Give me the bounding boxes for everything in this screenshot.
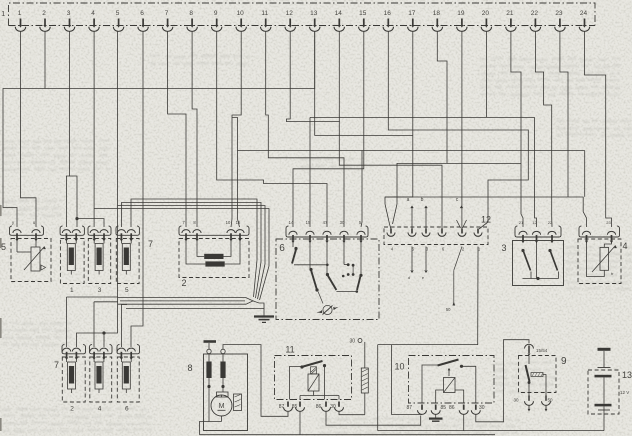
svg-text:10: 10 <box>394 362 404 372</box>
svg-text:85: 85 <box>441 405 447 411</box>
svg-text:8: 8 <box>187 363 192 373</box>
svg-text:30: 30 <box>330 404 336 410</box>
svg-text:12: 12 <box>481 215 491 225</box>
svg-text:19: 19 <box>457 10 465 17</box>
svg-text:30: 30 <box>340 220 345 225</box>
svg-text:2: 2 <box>70 406 74 413</box>
svg-text:13: 13 <box>310 10 318 17</box>
svg-text:85: 85 <box>292 404 298 410</box>
svg-text:b: b <box>421 197 424 203</box>
svg-text:86: 86 <box>449 405 455 411</box>
svg-text:15/54: 15/54 <box>536 348 548 353</box>
svg-text:3: 3 <box>501 243 506 253</box>
svg-text:21: 21 <box>506 10 514 17</box>
svg-text:5: 5 <box>125 287 129 294</box>
svg-text:9: 9 <box>561 356 567 367</box>
svg-text:7: 7 <box>148 239 153 249</box>
svg-text:86: 86 <box>316 404 322 410</box>
svg-text:22: 22 <box>531 10 539 17</box>
svg-text:87: 87 <box>279 404 285 410</box>
svg-text:23: 23 <box>555 10 563 17</box>
svg-text:8: 8 <box>189 10 193 17</box>
svg-text:21: 21 <box>519 220 524 225</box>
svg-text:14: 14 <box>335 10 343 17</box>
svg-text:2: 2 <box>181 278 186 288</box>
svg-text:3: 3 <box>98 287 102 294</box>
svg-text:14: 14 <box>289 220 294 225</box>
svg-text:1: 1 <box>1 11 5 18</box>
svg-text:30: 30 <box>479 405 485 411</box>
svg-text:13: 13 <box>622 370 632 380</box>
svg-text:18: 18 <box>433 10 441 17</box>
svg-text:4: 4 <box>98 406 102 413</box>
svg-text:d: d <box>408 275 410 280</box>
svg-text:15: 15 <box>306 220 311 225</box>
svg-text:5: 5 <box>116 10 120 17</box>
svg-text:11: 11 <box>261 10 268 17</box>
svg-text:a: a <box>407 197 410 203</box>
svg-text:6: 6 <box>125 406 129 413</box>
svg-text:47: 47 <box>323 220 328 225</box>
svg-text:16: 16 <box>384 10 392 17</box>
svg-text:24: 24 <box>580 10 588 17</box>
svg-text:15: 15 <box>359 10 367 17</box>
svg-text:M: M <box>219 403 225 410</box>
svg-text:11: 11 <box>285 345 294 355</box>
svg-text:12: 12 <box>532 220 537 225</box>
svg-text:4: 4 <box>623 241 628 251</box>
svg-text:7: 7 <box>54 360 59 370</box>
svg-text:15: 15 <box>236 220 241 225</box>
svg-text:1: 1 <box>70 287 74 294</box>
svg-text:1: 1 <box>18 10 22 17</box>
svg-text:23: 23 <box>606 220 611 225</box>
svg-text:22: 22 <box>548 220 553 225</box>
svg-text:12: 12 <box>286 10 294 17</box>
svg-text:2: 2 <box>42 10 46 17</box>
svg-text:3: 3 <box>67 10 71 17</box>
svg-text:17: 17 <box>408 10 416 17</box>
svg-text:4: 4 <box>91 10 95 17</box>
svg-text:87: 87 <box>406 405 412 411</box>
svg-text:50: 50 <box>547 398 553 403</box>
svg-text:9: 9 <box>214 10 218 17</box>
svg-text:6: 6 <box>279 243 285 254</box>
svg-text:12 V: 12 V <box>620 390 629 395</box>
svg-text:10: 10 <box>237 10 245 17</box>
svg-text:5: 5 <box>1 242 6 252</box>
svg-text:7: 7 <box>165 10 169 17</box>
svg-text:10: 10 <box>226 220 231 225</box>
svg-text:30: 30 <box>513 398 519 403</box>
svg-text:20: 20 <box>482 10 490 17</box>
svg-text:6: 6 <box>140 10 144 17</box>
svg-text:50: 50 <box>446 307 451 312</box>
svg-text:30: 30 <box>349 339 355 345</box>
